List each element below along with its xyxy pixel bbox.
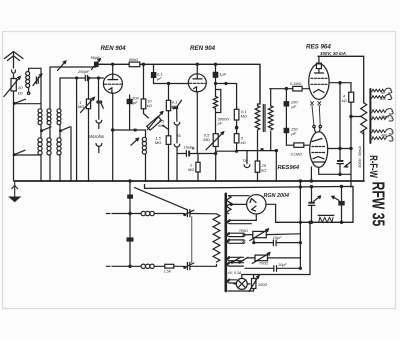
resistor R10 grid leak with capacitor 50000pF xyxy=(213,84,221,134)
winding speaker tap 480 lower xyxy=(372,136,393,141)
jack microphone 1 xyxy=(96,120,102,128)
transformer T1 interstage xyxy=(255,89,273,151)
svg-text:10µF: 10µF xyxy=(273,236,282,240)
wire anode supply 300V xyxy=(318,56,364,102)
svg-text:700Ω: 700Ω xyxy=(259,262,268,266)
wire pot to detector xyxy=(215,151,237,154)
resistor R18 field divider zigzag xyxy=(361,103,367,181)
tube V3 RES964 output xyxy=(309,56,329,99)
svg-text:R-F-W: R-F-W xyxy=(366,155,379,178)
switch S3b mains xyxy=(184,262,216,269)
resistor R7 0,1MOhm xyxy=(166,82,170,135)
wire B+ top rail xyxy=(99,64,260,104)
wire mains lead 1 xyxy=(106,212,141,214)
capacitor C1 trimmer xyxy=(33,74,42,86)
resistor R2 1 MOhm (potentiometer) xyxy=(76,77,95,181)
wire detector output y150.6 xyxy=(236,150,278,153)
svg-text:pF: pF xyxy=(291,104,297,109)
transformer T3 core xyxy=(225,194,228,291)
resistor R19 hum filter zigzag xyxy=(318,215,334,222)
coil L5 HF choke xyxy=(142,130,146,181)
wire ground rail xyxy=(15,180,364,182)
capacitor C10 100pF xyxy=(284,88,288,106)
coil L6 mains filter choke xyxy=(141,211,184,215)
svg-text:kΩ: kΩ xyxy=(147,103,152,108)
svg-text:50: 50 xyxy=(381,91,385,95)
wire cathode return xyxy=(310,167,351,182)
capacitor C8 1uF coupling xyxy=(213,63,217,83)
node junction dots on ground rail xyxy=(40,180,352,188)
wire mains lead 2 xyxy=(106,265,141,267)
coil L7 mains filter choke xyxy=(141,264,165,268)
switch S1b xyxy=(13,104,41,181)
svg-text:25kΩ: 25kΩ xyxy=(381,115,389,119)
svg-text:pF: pF xyxy=(132,100,138,105)
capacitor C14 line bypass xyxy=(127,237,134,241)
resistor 20 kOhm (variable) xyxy=(4,75,20,104)
antenna xyxy=(5,52,24,74)
capacitor C5 0,1uF xyxy=(152,64,156,83)
resistor R4 50kOhm xyxy=(129,62,144,67)
svg-text:kΩ: kΩ xyxy=(18,90,23,95)
transformer T3 mains primary xyxy=(213,214,220,266)
switch TA selector xyxy=(173,100,182,121)
svg-text:pF: pF xyxy=(291,131,297,136)
svg-text:kΩ: kΩ xyxy=(342,98,347,103)
svg-text:MΩ: MΩ xyxy=(188,167,194,172)
wire heater feed diagonal xyxy=(135,188,188,210)
svg-text:Microfon: Microfon xyxy=(88,134,105,139)
capacitor C7 10uF electrolytic xyxy=(177,147,216,156)
svg-text:MΩ: MΩ xyxy=(155,140,161,145)
winding 4V filament 2 xyxy=(226,239,245,243)
svg-text:MΩ: MΩ xyxy=(158,123,164,128)
coil L2 bank column 1 xyxy=(38,68,42,181)
wire lamp bottom xyxy=(228,290,254,292)
resistor R12 0,1MOhm xyxy=(234,84,239,134)
resistor R8 1,5MOhm xyxy=(166,136,171,181)
tube V2 REN904 xyxy=(188,63,206,153)
resistor R16 0,1MOhm grid RES964-2 xyxy=(286,143,310,147)
svg-text:kΩ: kΩ xyxy=(241,140,246,145)
svg-text:4V; 0,3A: 4V; 0,3A xyxy=(228,271,242,275)
wire heater rail xyxy=(145,185,354,223)
coil L3 bank column 2 xyxy=(47,67,51,181)
capacitor C13 line bypass xyxy=(127,195,133,199)
wire grid line tube2 xyxy=(154,83,189,85)
capacitor C18 electrolytic filter xyxy=(332,185,345,223)
svg-text:50kΩ: 50kΩ xyxy=(129,57,139,62)
winding pilot lamp xyxy=(227,279,237,283)
resistor R5 10kOhm xyxy=(141,64,146,113)
winding filament RGN xyxy=(226,214,256,224)
svg-text:250pF: 250pF xyxy=(77,69,90,74)
resistor R9 2MOhm xyxy=(196,154,200,182)
switch microphone xyxy=(97,77,103,119)
svg-text:RES 964: RES 964 xyxy=(306,44,331,51)
resistor R22 100 Ohm xyxy=(249,275,259,292)
wire 4V bus xyxy=(242,221,311,274)
svg-text:700Ω: 700Ω xyxy=(239,229,248,233)
wire PSU center column xyxy=(299,180,301,269)
resistor R13 5kOhm xyxy=(234,134,239,152)
coil L1 antenna coil xyxy=(26,68,41,94)
winding LT secondary 2 xyxy=(226,262,244,266)
svg-text:50pF: 50pF xyxy=(91,55,101,60)
svg-text:100Ω: 100Ω xyxy=(258,283,267,287)
coil L4 bank column 3 xyxy=(57,78,61,181)
svg-text:MΩ: MΩ xyxy=(241,114,247,119)
switch gang link xyxy=(191,217,193,263)
arrow tuning indicator xyxy=(131,138,138,145)
resistor R17 4kOhm xyxy=(349,83,361,187)
capacitor C12 electrolytic anode bypass xyxy=(337,83,351,175)
svg-text:0,1MΩ: 0,1MΩ xyxy=(291,153,302,157)
svg-text:10µF: 10µF xyxy=(184,145,193,149)
switch S2b band switch xyxy=(60,127,70,132)
jack TA pickup xyxy=(244,151,250,168)
svg-text:0,1MΩ: 0,1MΩ xyxy=(290,82,301,86)
svg-text:800: 800 xyxy=(380,97,386,101)
wire grid circuit y78 xyxy=(60,77,85,79)
switch wave trap arrow xyxy=(58,61,66,71)
resistor R21 700 Ohm pot xyxy=(247,253,300,264)
switch S3a mains xyxy=(184,210,216,217)
winding 4V filament 1 xyxy=(226,232,245,236)
wire anode RES964-2 xyxy=(328,147,352,149)
jack TA 2 xyxy=(174,144,180,181)
svg-text:µF: µF xyxy=(157,76,162,81)
svg-text:1,5A: 1,5A xyxy=(164,269,172,273)
capacitor C9 blocking xyxy=(261,148,264,151)
svg-text:RGN 2004: RGN 2004 xyxy=(264,193,289,199)
winding speaker tap 25kOhm upper xyxy=(372,109,393,114)
svg-text:10µF: 10µF xyxy=(278,263,287,267)
capacitor C17 electrolytic filter xyxy=(308,186,320,224)
svg-text:TA: TA xyxy=(242,158,247,163)
winding speaker tap 100 xyxy=(372,95,392,100)
winding speaker tap 50 xyxy=(372,88,392,93)
switch S2a band switch xyxy=(41,127,51,132)
wire PSU bottom rail xyxy=(276,221,353,223)
capacitor C6 blocking xyxy=(134,129,137,132)
wire column x71 xyxy=(70,127,72,181)
wire detector ground return xyxy=(275,151,277,181)
winding speaker tap 25kOhm lower xyxy=(372,116,393,121)
fuse 1,5A xyxy=(165,264,184,268)
wire anode coupling y83.5 xyxy=(215,83,237,85)
resistor R14 25kOhm xyxy=(255,131,260,181)
svg-text:1µF: 1µF xyxy=(219,71,227,76)
tube V4 RES964 output xyxy=(310,125,328,167)
capacitor C4 100pF xyxy=(127,95,132,130)
tube V5 RGN2004 rectifier xyxy=(247,195,266,214)
capacitor C3 250pF xyxy=(85,75,87,80)
ground xyxy=(10,181,20,202)
svg-text:RES964: RES964 xyxy=(278,165,300,171)
winding LT secondary 1 xyxy=(226,257,244,261)
resistor R6 0,5MOhm regeneration pot xyxy=(144,112,169,131)
resistor R3 grid leak xyxy=(86,77,90,181)
jack TA 1 xyxy=(174,122,180,143)
tube V1 REN904 xyxy=(103,63,122,181)
svg-text:kΩ: kΩ xyxy=(261,167,266,172)
wire anode RES964-1 xyxy=(329,82,351,84)
svg-text:REN 904: REN 904 xyxy=(101,45,127,52)
jack microphone 2 xyxy=(96,144,102,153)
capacitor C16 10uF xyxy=(245,266,300,272)
switch S1a xyxy=(13,99,41,104)
capacitor C11 150pF xyxy=(284,106,288,145)
svg-text:480: 480 xyxy=(381,134,387,138)
svg-text:MΩ: MΩ xyxy=(78,104,84,109)
svg-text:20: 20 xyxy=(17,85,23,90)
wire cathode bus y130 xyxy=(112,129,146,131)
capacitor C15 10uF xyxy=(253,238,301,246)
svg-text:MΩ: MΩ xyxy=(172,104,178,109)
resistor R15 0,1MOhm grid RES964-1 xyxy=(270,86,310,91)
svg-text:pF: pF xyxy=(217,121,223,126)
resistor R11 0,5MOhm volume pot xyxy=(206,132,224,181)
wire rectifier output xyxy=(266,204,276,222)
winding speaker tap 480 upper xyxy=(372,129,393,134)
svg-text:REN 904: REN 904 xyxy=(190,45,216,52)
winding HV secondary xyxy=(226,196,249,214)
svg-text:RFW 35: RFW 35 xyxy=(368,182,388,227)
switch voltage selector xyxy=(231,257,248,263)
svg-text:300V; 30mA: 300V; 30mA xyxy=(357,146,362,168)
svg-text:MΩ: MΩ xyxy=(203,137,209,142)
pin labels X R xyxy=(311,102,321,126)
transformer T2 output speaker core xyxy=(369,89,371,143)
wire tuned circuit top xyxy=(50,66,96,68)
capacitor C2 50pF trimmer xyxy=(92,59,104,70)
lamp pilot xyxy=(234,275,250,290)
resistor R20 700 Ohm hum pot xyxy=(244,229,300,241)
svg-text:TA: TA xyxy=(177,134,182,138)
wire heater dropper column xyxy=(129,180,131,266)
svg-text:300V; 30 mA: 300V; 30 mA xyxy=(320,51,346,56)
